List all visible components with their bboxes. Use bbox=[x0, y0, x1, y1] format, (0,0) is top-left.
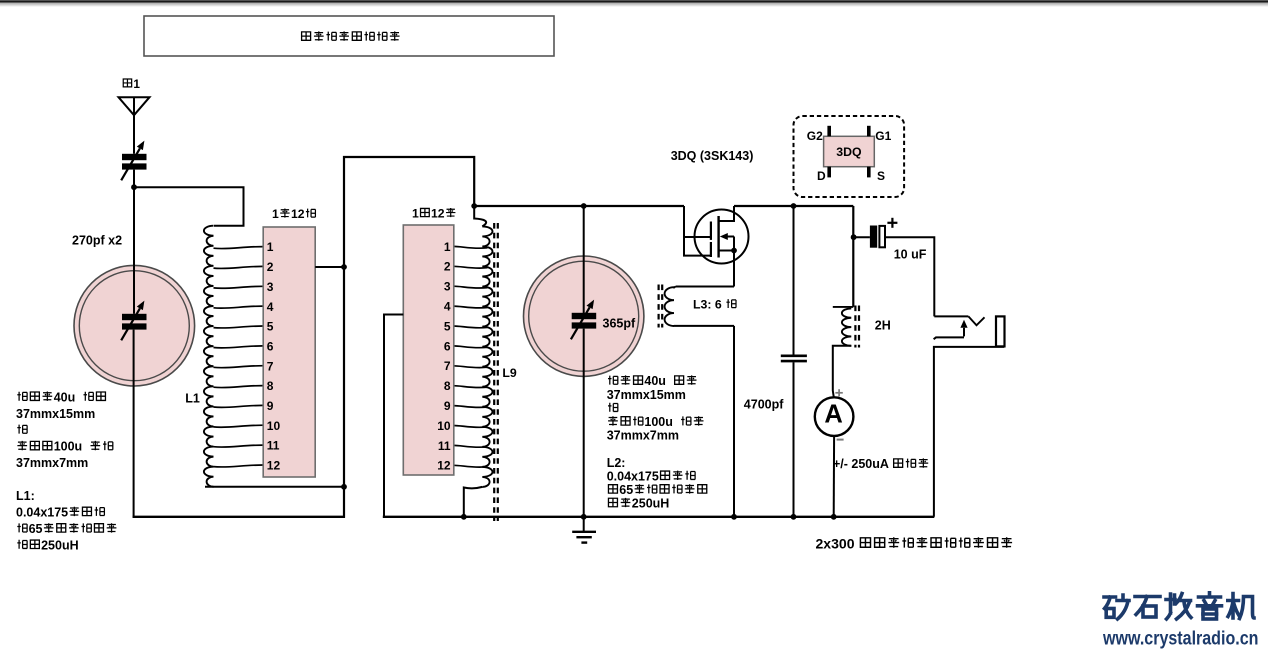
top rail net gate bbox=[474, 205, 684, 207]
svg-text:12: 12 bbox=[267, 459, 281, 473]
jack tip lead bbox=[934, 337, 964, 339]
wire L3 top bbox=[676, 286, 734, 288]
Q1 gate lead G2 bbox=[684, 236, 711, 238]
svg-text:100u: 100u bbox=[644, 415, 673, 429]
svg-text:3: 3 bbox=[267, 280, 274, 294]
L1 bottom lead bbox=[205, 486, 344, 488]
Q1 gate feed wire bbox=[684, 206, 711, 256]
junction Q1 source bbox=[731, 248, 737, 254]
ground bbox=[583, 517, 585, 532]
capacitor 4700pf bbox=[793, 206, 795, 355]
bottom rail left segment bbox=[133, 516, 345, 518]
svg-text:7: 7 bbox=[444, 359, 451, 373]
junction rail/365pf bbox=[581, 203, 587, 209]
svg-text:65: 65 bbox=[619, 483, 633, 497]
svg-text:10 uF: 10 uF bbox=[894, 247, 927, 261]
svg-text:L9: L9 bbox=[502, 366, 517, 380]
svg-text:3: 3 bbox=[444, 280, 451, 294]
wire L3 bottom bbox=[674, 325, 734, 327]
svg-text:4: 4 bbox=[267, 300, 274, 314]
coil L2 (L9) bbox=[482, 226, 492, 487]
S2 wiper wire bbox=[384, 315, 403, 517]
svg-text:37mmx7mm: 37mmx7mm bbox=[607, 429, 679, 443]
junction L2 bottom/rail bbox=[461, 514, 467, 520]
svg-text:5: 5 bbox=[267, 320, 274, 334]
junction bus to L2 top bbox=[471, 203, 477, 209]
svg-text:11: 11 bbox=[438, 439, 451, 453]
pin S bbox=[867, 167, 871, 178]
Q1 source vertical bbox=[733, 237, 735, 287]
coil L3 6 turns bbox=[674, 287, 676, 289]
wire 2H bottom to ammeter bbox=[833, 346, 852, 398]
wire C1 to bottom rail bbox=[133, 330, 135, 518]
svg-text:12: 12 bbox=[431, 207, 445, 221]
notes block L2 parameters bbox=[608, 376, 618, 385]
svg-text:250uH: 250uH bbox=[632, 497, 670, 511]
junction 10uF branch bbox=[851, 234, 857, 240]
headphone jack J1 bbox=[934, 315, 968, 317]
svg-text:2: 2 bbox=[267, 260, 274, 274]
ammeter - mark bbox=[837, 439, 844, 441]
svg-text:37mmx7mm: 37mmx7mm bbox=[16, 456, 88, 470]
pin D bbox=[827, 167, 831, 178]
rotary switch S1 1刀12择 bbox=[263, 227, 315, 477]
antenna 天1 label bbox=[123, 79, 131, 87]
capacitor C3 10uF electrolytic bbox=[854, 236, 870, 238]
title box 磁环中短波收音机 bbox=[144, 16, 554, 56]
svg-text:11: 11 bbox=[267, 439, 280, 453]
svg-text:40u: 40u bbox=[644, 374, 666, 388]
pin G1 bbox=[867, 126, 871, 137]
junction L3/rail bbox=[731, 514, 737, 520]
svg-text:+/- 250uA: +/- 250uA bbox=[833, 457, 889, 471]
L2 taps to switch S2 bbox=[454, 246, 488, 248]
svg-text:G1: G1 bbox=[875, 129, 891, 143]
svg-text:6: 6 bbox=[444, 339, 451, 353]
svg-text:1: 1 bbox=[444, 240, 451, 254]
svg-text:S: S bbox=[877, 169, 885, 183]
junction ground node bbox=[581, 514, 587, 520]
ammeter + mark bbox=[835, 392, 842, 394]
svg-text:2x300: 2x300 bbox=[816, 535, 855, 551]
wire L2 top entry bbox=[474, 206, 486, 226]
svg-text:12: 12 bbox=[291, 207, 305, 221]
logo url www.crystalradio.cn bbox=[1102, 627, 1258, 649]
logo 矿石收音机 bbox=[1104, 593, 1254, 619]
transistor Q1 3DQ(3SK143) dual-gate MOSFET bbox=[695, 210, 749, 264]
junction rail/4700pf top bbox=[791, 203, 797, 209]
inductor 2H bbox=[833, 306, 854, 308]
svg-text:A: A bbox=[824, 400, 842, 428]
svg-text:12: 12 bbox=[437, 459, 451, 473]
svg-text:40u: 40u bbox=[54, 390, 76, 404]
top border line bbox=[0, 0, 1268, 2]
magnetic ring rotor circle for C2 bbox=[524, 256, 644, 376]
L2 core (dashed) bbox=[493, 223, 495, 521]
svg-text:0.04x175: 0.04x175 bbox=[607, 469, 659, 483]
svg-text:365pf: 365pf bbox=[603, 316, 636, 330]
wire C2 to rail bbox=[583, 329, 585, 517]
svg-text:65: 65 bbox=[29, 522, 43, 536]
svg-text:4: 4 bbox=[444, 300, 451, 314]
svg-text:37mmx15mm: 37mmx15mm bbox=[607, 388, 686, 402]
Q1 drain tap bbox=[719, 206, 734, 221]
svg-text:2H: 2H bbox=[875, 319, 891, 333]
Q1 pinout dashed box bbox=[794, 116, 905, 197]
svg-text:L1: L1 bbox=[185, 392, 200, 406]
Q1 substrate arrow bbox=[728, 236, 734, 238]
variable capacitor C2 365pf bbox=[572, 313, 597, 319]
svg-text:100u: 100u bbox=[54, 440, 82, 454]
jack body bbox=[996, 316, 1005, 346]
svg-text:4700pf: 4700pf bbox=[744, 397, 784, 411]
2H core (dashed) bbox=[854, 306, 856, 348]
svg-text:0.04x175: 0.04x175 bbox=[16, 506, 68, 520]
svg-text:L2:: L2: bbox=[607, 456, 626, 470]
antenna 天1 bbox=[119, 97, 150, 154]
S1 wiper wire bbox=[315, 266, 344, 268]
jack switch contact bbox=[968, 316, 984, 325]
wire rail corner right bbox=[852, 206, 854, 307]
svg-text:G2: G2 bbox=[807, 129, 823, 143]
svg-text:250uH: 250uH bbox=[41, 538, 79, 552]
trimmer capacitor 270pf (antenna) bbox=[122, 154, 147, 160]
Q1 gate bar segments bbox=[710, 222, 712, 240]
ammeter M1 bbox=[815, 397, 854, 436]
svg-text:8: 8 bbox=[444, 379, 451, 393]
pin G2 bbox=[827, 126, 831, 137]
variable capacitor C1 270pf x2 bbox=[122, 314, 147, 320]
svg-text:3DQ: 3DQ bbox=[836, 145, 862, 159]
junction 4700pf/rail bbox=[791, 514, 797, 520]
svg-text:8: 8 bbox=[267, 379, 274, 393]
svg-text:5: 5 bbox=[444, 319, 451, 333]
svg-text:10: 10 bbox=[267, 419, 281, 433]
svg-text:9: 9 bbox=[267, 399, 274, 413]
wire 365pf top bbox=[583, 206, 585, 313]
L1 taps to switch bbox=[214, 247, 264, 249]
svg-text:L1:: L1: bbox=[16, 489, 35, 503]
junction L1 bottom/bus bbox=[341, 484, 347, 490]
rotary switch S2 1刀12择 bbox=[403, 225, 454, 475]
wire L3 to rail bbox=[733, 326, 735, 517]
svg-text:1: 1 bbox=[267, 240, 274, 254]
magnetic ring rotor circle for C1 bbox=[74, 265, 195, 386]
wire trimmer to junction bbox=[133, 170, 135, 188]
svg-text:10: 10 bbox=[437, 419, 451, 433]
svg-text:270pf x2: 270pf x2 bbox=[72, 233, 122, 247]
wire junction to L1 top bbox=[134, 187, 244, 226]
jack sleeve lead bbox=[934, 347, 1004, 517]
svg-text:2: 2 bbox=[444, 260, 451, 274]
wire ammeter to rail bbox=[833, 436, 835, 517]
Q1 pinout body 3DQ bbox=[824, 136, 875, 166]
svg-text:L3: 6: L3: 6 bbox=[693, 298, 722, 312]
wire into C1 bbox=[133, 187, 135, 314]
Q1 source tap bbox=[719, 250, 734, 252]
junction S1 wiper/bus bbox=[341, 264, 347, 270]
svg-text:9: 9 bbox=[444, 399, 451, 413]
coil L1 bbox=[204, 226, 214, 487]
Q1 channel bar bbox=[717, 216, 719, 258]
drain rail to right bbox=[734, 205, 853, 207]
svg-text:6: 6 bbox=[267, 339, 274, 353]
L2 bottom lead bbox=[464, 487, 483, 517]
svg-text:1: 1 bbox=[272, 207, 279, 221]
bus wire left vertical bbox=[344, 157, 474, 518]
svg-text:7: 7 bbox=[267, 359, 274, 373]
jack tip arrow bbox=[963, 328, 965, 337]
svg-text:37mmx15mm: 37mmx15mm bbox=[16, 407, 95, 421]
bottom rail right segment bbox=[383, 516, 935, 518]
wire 4700pf to rail bbox=[793, 362, 795, 517]
junction node antenna/C1 bbox=[131, 184, 137, 190]
svg-text:3DQ (3SK143): 3DQ (3SK143) bbox=[671, 149, 754, 163]
L3 core (dashed) bbox=[657, 285, 659, 328]
svg-text:www.crystalradio.cn: www.crystalradio.cn bbox=[1102, 627, 1258, 649]
svg-text:D: D bbox=[817, 169, 826, 183]
junction ammeter/rail bbox=[831, 514, 837, 520]
notes block L1 parameters bbox=[17, 392, 27, 401]
wire 10uF to jack bbox=[885, 237, 934, 316]
svg-text:1: 1 bbox=[412, 207, 419, 221]
svg-text:1: 1 bbox=[133, 77, 140, 91]
